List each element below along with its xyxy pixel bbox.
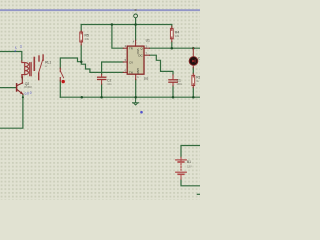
wire coil bottom to Q2 collector [21, 78, 23, 80]
wire IC pin 3 output to right edge [150, 47, 201, 49]
wire battery bottom loop [181, 179, 200, 186]
svg-text:10n: 10n [107, 82, 112, 86]
battery B1 [176, 157, 187, 179]
op-amp/timer U1 555 body [127, 46, 144, 74]
wire R4 bottom lead [171, 42, 173, 49]
wire ground bus [60, 96, 200, 98]
junction rail / pin2 drop [111, 23, 114, 26]
svg-text:VCC: VCC [136, 49, 140, 55]
svg-text:R4: R4 [175, 30, 179, 34]
wire R5 bottom to node TH [80, 45, 82, 62]
wire Q2 emitter down and left [0, 94, 23, 128]
wire R5 top lead [80, 25, 82, 32]
bus BUS1 (blue horizontal bus line) [0, 9, 200, 11]
wire IC pin 1 to bus [135, 80, 137, 98]
wire rail to IC pin 2 [112, 25, 123, 49]
wire relay coil top feed [0, 52, 22, 61]
svg-text:RL1: RL1 [45, 61, 51, 65]
svg-text:12V: 12V [187, 165, 192, 169]
svg-text:R5: R5 [85, 33, 89, 37]
resistor R5 [80, 31, 83, 45]
node marker blue diamond [140, 111, 143, 114]
svg-text:B1: B1 [187, 160, 191, 164]
wire VCC rail [81, 24, 172, 26]
svg-text:100n: 100n [176, 82, 182, 86]
relay RL1 coil [22, 61, 31, 78]
wire stub bottom right edge [197, 193, 200, 195]
svg-text:555: 555 [144, 76, 149, 80]
junction bus / C1 [172, 96, 175, 99]
LED D1 [189, 48, 198, 68]
transistor Q2 [17, 76, 23, 94]
junction node TH [80, 60, 83, 63]
node marker emitter [22, 96, 24, 98]
wire C2 bottom to bus [101, 84, 103, 97]
resistor R1 [192, 73, 195, 87]
power terminal VCC [134, 14, 138, 18]
wire staircase node TH to IC pin 6 [81, 62, 123, 73]
svg-text:10k: 10k [175, 34, 180, 38]
ground [133, 97, 139, 105]
wire R4 top lead [171, 25, 173, 29]
wire LED D1 to R1 [192, 68, 194, 74]
svg-text:TR: TR [129, 46, 133, 50]
svg-text:C1: C1 [177, 79, 181, 83]
resistor R4 [170, 26, 173, 42]
wire C1 bottom to bus [172, 86, 174, 97]
junction bus / C2 [100, 96, 103, 99]
junction bus / IC gnd [134, 96, 137, 99]
U1 pin numbers [125, 39, 148, 79]
junction output / R4 [171, 47, 174, 50]
switch SW1 [60, 68, 63, 81]
svg-text:C2: C2 [107, 78, 111, 82]
svg-text:CV: CV [129, 60, 133, 64]
wire R1 bottom to bus [192, 87, 194, 97]
wire switch bottom to ground bus [59, 81, 61, 98]
relay RL1 contact [34, 55, 43, 80]
junction bus / R1 [192, 96, 195, 99]
svg-text:TH: TH [129, 71, 133, 75]
svg-text:R1: R1 [196, 75, 200, 79]
capacitor C1 [169, 75, 177, 86]
junction output / LED [192, 47, 195, 50]
wire battery top loop [181, 146, 200, 158]
wire IC pin 7 staircase to C1 [150, 55, 174, 75]
junction rail / power [134, 23, 137, 26]
bus entry marker [135, 9, 137, 11]
wire Q2 base [0, 87, 16, 89]
svg-text:D1: D1 [198, 57, 200, 61]
svg-text:0: 0 [30, 91, 32, 95]
wire switch top jog to node TH [60, 58, 81, 68]
U1 pin stubs [123, 40, 149, 79]
switch SW1 actuator dot [62, 80, 65, 83]
svg-text:GND: GND [136, 68, 140, 74]
svg-text:BC548: BC548 [24, 86, 32, 89]
svg-text:U1: U1 [146, 38, 150, 42]
U1 pin names [129, 46, 143, 74]
wire power terminal to IC pin 8 [135, 18, 137, 40]
capacitor C2 [98, 74, 106, 84]
wire IC pin 5 to C2 [102, 62, 124, 74]
svg-text:10k: 10k [85, 37, 90, 41]
junction bus left [81, 96, 84, 99]
